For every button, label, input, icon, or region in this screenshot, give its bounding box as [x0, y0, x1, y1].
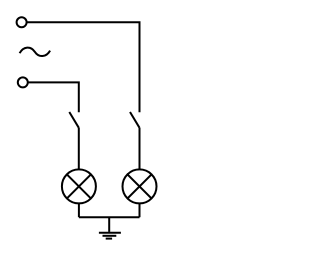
wire [27, 22, 140, 112]
switch S2 blade [130, 112, 140, 128]
ground [99, 233, 121, 239]
wire [78, 203, 80, 217]
wire [139, 128, 141, 170]
switch S1 blade [69, 112, 79, 128]
wire [28, 82, 79, 112]
lamp E2 [123, 169, 157, 203]
wire [139, 203, 141, 217]
terminal X2 [18, 77, 28, 87]
AC source symbol [20, 48, 50, 56]
wire ground stem [108, 217, 110, 232]
wire [78, 128, 80, 170]
lamp E1 [62, 169, 96, 203]
wire bottom bus [79, 216, 140, 218]
terminal X1 [17, 17, 27, 27]
